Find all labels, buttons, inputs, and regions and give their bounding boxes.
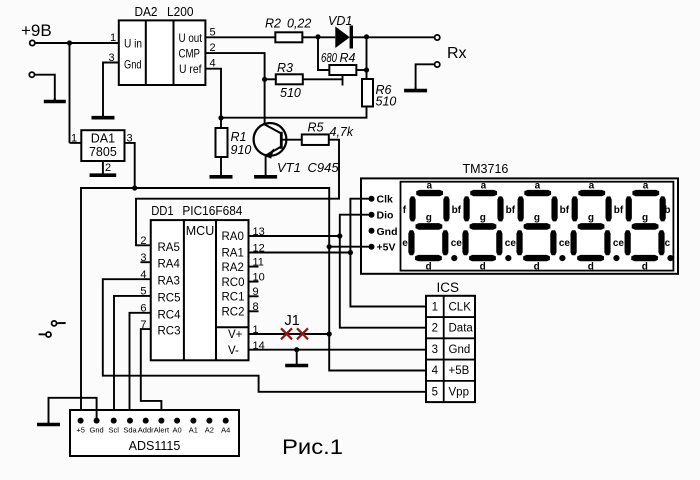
svg-text:U in: U in	[124, 37, 142, 51]
svg-text:RA3: RA3	[158, 276, 180, 288]
display pin bullet Dio	[369, 212, 375, 218]
svg-text:ce: ce	[505, 238, 517, 249]
svg-text:bf: bf	[614, 205, 624, 216]
svg-text:J1: J1	[285, 313, 300, 329]
pin 11 stub	[249, 266, 259, 268]
svg-text:ce: ce	[559, 238, 571, 249]
wire +9V terminal to junction	[35, 42, 70, 44]
svg-text:a: a	[427, 181, 433, 192]
svg-text:a: a	[589, 181, 595, 192]
wire R4 right to cathode rail	[356, 69, 366, 71]
svg-text:R2: R2	[265, 17, 281, 31]
display digit 3	[524, 190, 551, 196]
svg-text:VD1: VD1	[328, 14, 352, 28]
svg-text:R1: R1	[231, 130, 247, 144]
pin 3 stub RA4	[141, 261, 151, 263]
node VD1 anode	[315, 34, 320, 39]
svg-text:Gnd: Gnd	[449, 344, 471, 356]
svg-text:4: 4	[210, 58, 216, 70]
svg-text:ce: ce	[613, 238, 625, 249]
node VD1 cathode	[364, 34, 369, 39]
ground input return	[54, 98, 56, 102]
svg-text:Vpp: Vpp	[449, 386, 469, 398]
wire Dio net down to ICS Data	[340, 236, 426, 328]
svg-text:g: g	[480, 213, 486, 224]
resistor R4	[329, 65, 356, 75]
svg-text:Dio: Dio	[377, 210, 394, 222]
ADS1115 pin bullet Gnd	[94, 418, 100, 424]
svg-text:7805: 7805	[89, 145, 117, 159]
svg-text:A1: A1	[189, 426, 198, 435]
svg-text:R3: R3	[277, 61, 293, 75]
node R4 right	[364, 67, 369, 72]
wire pin13 RA0	[249, 235, 340, 237]
svg-text:ICS: ICS	[437, 280, 460, 295]
wire VD1 cathode to node	[351, 36, 366, 38]
svg-text:U out: U out	[179, 31, 203, 45]
svg-text:g: g	[426, 213, 432, 224]
pin 9 stub	[249, 295, 259, 297]
node R1 top	[218, 115, 223, 120]
svg-text:R5: R5	[308, 121, 324, 135]
terminal Rx bottom	[435, 62, 440, 67]
wire Clk to RA5-less net	[350, 199, 371, 253]
svg-text:CMP: CMP	[179, 47, 201, 61]
svg-text:5: 5	[432, 386, 438, 398]
svg-text:RC5: RC5	[158, 292, 181, 304]
svg-text:3: 3	[432, 344, 438, 356]
svg-text:4,7k: 4,7k	[330, 125, 354, 139]
regulator DA2 L200 box	[119, 20, 206, 85]
wire DA1 pin1	[70, 142, 82, 144]
ADS1115 pin bullet A0	[174, 418, 180, 424]
svg-text:g: g	[534, 213, 540, 224]
svg-text:RC0: RC0	[222, 277, 245, 289]
wire pin12 RA1	[249, 252, 351, 254]
node pin13 junction	[337, 233, 342, 238]
tap of R4	[342, 75, 344, 86]
wire ADS Gnd to ground	[49, 398, 97, 423]
ADS1115 pin bullet Alert	[158, 418, 164, 424]
svg-text:4: 4	[432, 365, 439, 377]
svg-text:RC1: RC1	[222, 292, 245, 304]
display TM3716 outer box	[361, 178, 678, 273]
svg-text:d: d	[480, 262, 486, 273]
wire RA3 to Vpp net	[103, 279, 426, 392]
wire +5V rail left down to ADS	[81, 188, 135, 421]
svg-text:+9В: +9В	[21, 21, 52, 40]
transistor VT1 C945	[254, 123, 287, 156]
ground Rx return	[415, 87, 417, 91]
svg-text:V+: V+	[228, 329, 243, 341]
svg-text:+5: +5	[76, 426, 85, 435]
svg-text:RA1: RA1	[222, 248, 244, 260]
wire Dio to pin13 net	[340, 215, 372, 236]
svg-text:RC2: RC2	[222, 307, 245, 319]
svg-text:g: g	[588, 213, 594, 224]
svg-text:TM3716: TM3716	[463, 162, 509, 176]
wire R3 left	[265, 78, 276, 80]
svg-text:c: c	[665, 238, 671, 249]
wire V+ pin1 to J1 node	[249, 333, 330, 335]
terminal switch lower	[46, 332, 51, 337]
ground ADS	[48, 421, 50, 425]
svg-text:680: 680	[321, 51, 337, 65]
svg-text:Addr: Addr	[138, 426, 154, 435]
svg-text:RC4: RC4	[158, 309, 182, 321]
node R3 left	[262, 77, 267, 82]
resistor R1	[216, 128, 228, 157]
svg-text:Alert: Alert	[154, 426, 170, 435]
regulator DA1 7805 box	[81, 130, 124, 161]
svg-text:Data: Data	[449, 323, 474, 335]
svg-text:A0: A0	[173, 426, 182, 435]
svg-text:CLK: CLK	[449, 301, 472, 313]
svg-text:Sda: Sda	[123, 426, 137, 435]
wire RC5 to Scl	[114, 296, 151, 421]
ADS1115 pin bullet Addr	[143, 418, 149, 424]
svg-text:d: d	[534, 262, 540, 273]
svg-text:R4: R4	[340, 51, 356, 65]
svg-text:Gnd: Gnd	[124, 58, 142, 72]
svg-text:bf: bf	[506, 205, 516, 216]
display digit 4	[578, 190, 605, 196]
svg-text:1: 1	[110, 32, 116, 44]
wire V- pin14	[249, 349, 427, 351]
ADS1115 pin bullet Scl	[111, 418, 117, 424]
display pin bullet +5V	[369, 244, 375, 250]
wire R3 right to R4 tap	[303, 78, 343, 80]
svg-text:+5V: +5V	[377, 242, 396, 254]
wire anode down to R4	[318, 37, 329, 70]
wire VT1 base to R5	[281, 139, 302, 141]
svg-text:910: 910	[231, 143, 252, 157]
pin 5 wire DA2 to R2	[205, 36, 275, 38]
mcu DD1 box	[151, 220, 249, 360]
svg-text:g: g	[642, 213, 648, 224]
node V+ junction	[327, 331, 332, 336]
ground V-	[296, 350, 298, 366]
wire return terminal	[35, 75, 55, 101]
adc ADS1115 box	[70, 410, 239, 456]
svg-text:RC3: RC3	[158, 326, 181, 338]
connector ICS box	[426, 296, 475, 402]
svg-text:V-: V-	[228, 345, 239, 357]
svg-text:2: 2	[105, 162, 111, 174]
display digit 5	[632, 190, 659, 196]
svg-text:Gnd: Gnd	[90, 426, 104, 435]
ADS1115 pin bullet A2	[206, 418, 212, 424]
svg-text:a: a	[535, 181, 541, 192]
wire VT1 emitter to ground	[265, 154, 267, 177]
wire +5V rail right	[135, 188, 330, 247]
jumper J1 X mark 1	[281, 328, 292, 339]
wire RC3 to Alert	[141, 329, 162, 421]
svg-text:C945: C945	[308, 160, 340, 175]
ADS1115 pin bullet A4	[223, 418, 229, 424]
svg-text:RA2: RA2	[222, 262, 244, 274]
svg-text:Scl: Scl	[108, 426, 119, 435]
terminal input return	[29, 72, 34, 77]
wire Clk net down to ICS CLK	[350, 253, 426, 307]
display pin bullet Gnd	[369, 228, 375, 234]
display digit 2	[470, 190, 497, 196]
wire cathode to Rx terminal	[367, 36, 436, 38]
svg-text:RA0: RA0	[222, 231, 244, 243]
node +9V junction	[67, 40, 72, 45]
svg-text:d: d	[642, 262, 648, 273]
svg-text:PIC16F684: PIC16F684	[182, 204, 242, 218]
svg-text:A2: A2	[205, 426, 214, 435]
ADS1115 pin bullet +5	[78, 418, 84, 424]
svg-text:A4: A4	[221, 426, 230, 435]
diode VD1	[335, 27, 350, 49]
wire RC4 to Sda	[130, 313, 151, 421]
svg-text:d: d	[588, 262, 594, 273]
svg-text:DD1: DD1	[151, 204, 174, 218]
svg-text:bf: bf	[560, 205, 570, 216]
svg-text:Rx: Rx	[447, 45, 467, 62]
wire R1 bottom + ground	[220, 157, 222, 177]
wire R1 top lead	[220, 118, 222, 128]
svg-text:Gnd: Gnd	[377, 226, 398, 238]
svg-text:+5B: +5B	[449, 365, 470, 377]
resistor R2	[275, 32, 302, 42]
node +5V rail	[132, 185, 137, 190]
wire U ref down	[205, 69, 221, 118]
display digit 1	[416, 190, 443, 196]
svg-text:1: 1	[432, 301, 438, 313]
svg-text:ADS1115: ADS1115	[129, 439, 181, 453]
svg-text:U ref: U ref	[179, 62, 202, 76]
svg-text:Рис.1: Рис.1	[282, 435, 343, 459]
svg-text:VT1: VT1	[277, 160, 301, 175]
node pin12 junction	[348, 250, 353, 255]
svg-text:DA2: DA2	[135, 4, 158, 19]
ground DA1 pin2	[102, 161, 104, 175]
wire +9V junction down to DA1 pin1	[69, 43, 71, 143]
svg-text:510: 510	[280, 86, 301, 100]
terminal +9V top	[30, 40, 35, 45]
wire Rx bottom to ground	[416, 64, 435, 89]
svg-text:MCU: MCU	[186, 224, 214, 238]
display TM3716 inner box	[401, 182, 674, 271]
svg-text:b: b	[664, 205, 670, 216]
ADS1115 pin bullet A1	[190, 418, 196, 424]
wire R6 bottom to R1 node	[221, 106, 367, 117]
pin 3 DA2 wire + ground	[103, 63, 119, 117]
svg-text:2: 2	[432, 323, 438, 335]
svg-text:a: a	[481, 181, 487, 192]
wire R5 to RA5 net	[136, 140, 339, 246]
svg-text:bf: bf	[452, 205, 462, 216]
svg-text:L200: L200	[167, 4, 194, 19]
resistor R6	[362, 79, 373, 107]
node +5V display junction	[327, 244, 332, 249]
pin 10 stub	[249, 281, 259, 283]
svg-text:0,22: 0,22	[287, 17, 311, 31]
svg-text:ce: ce	[451, 238, 463, 249]
terminal Rx top	[435, 35, 440, 40]
svg-text:510: 510	[376, 95, 397, 109]
wire +5V rail down to ICS +5B	[329, 247, 426, 371]
display pin bullet Clk	[369, 196, 375, 202]
svg-text:DA1: DA1	[91, 132, 115, 146]
terminal switch upper	[52, 321, 57, 326]
svg-text:RA4: RA4	[158, 259, 181, 271]
wire cathode down to R6	[366, 37, 368, 79]
resistor R3	[276, 74, 303, 84]
pin 8 stub	[249, 310, 259, 312]
wire DA1 pin3 to +5V node	[125, 143, 135, 188]
svg-text:Clk: Clk	[377, 194, 394, 206]
svg-text:d: d	[426, 262, 432, 273]
svg-text:RA5: RA5	[158, 242, 180, 254]
resistor R5	[302, 134, 329, 145]
wire +5V display pin	[329, 246, 371, 248]
wire R2 to VD1 anode	[302, 36, 318, 38]
jumper J1 X mark 2	[297, 328, 308, 339]
node V- ground junction	[294, 347, 299, 352]
svg-text:a: a	[643, 181, 649, 192]
ADS1115 pin bullet Sda	[127, 418, 133, 424]
svg-text:e: e	[402, 238, 408, 249]
svg-text:2: 2	[140, 235, 146, 247]
wire +9V junction to DA2 pin1	[70, 42, 119, 44]
wire CMP to VT1 collector	[205, 53, 264, 124]
